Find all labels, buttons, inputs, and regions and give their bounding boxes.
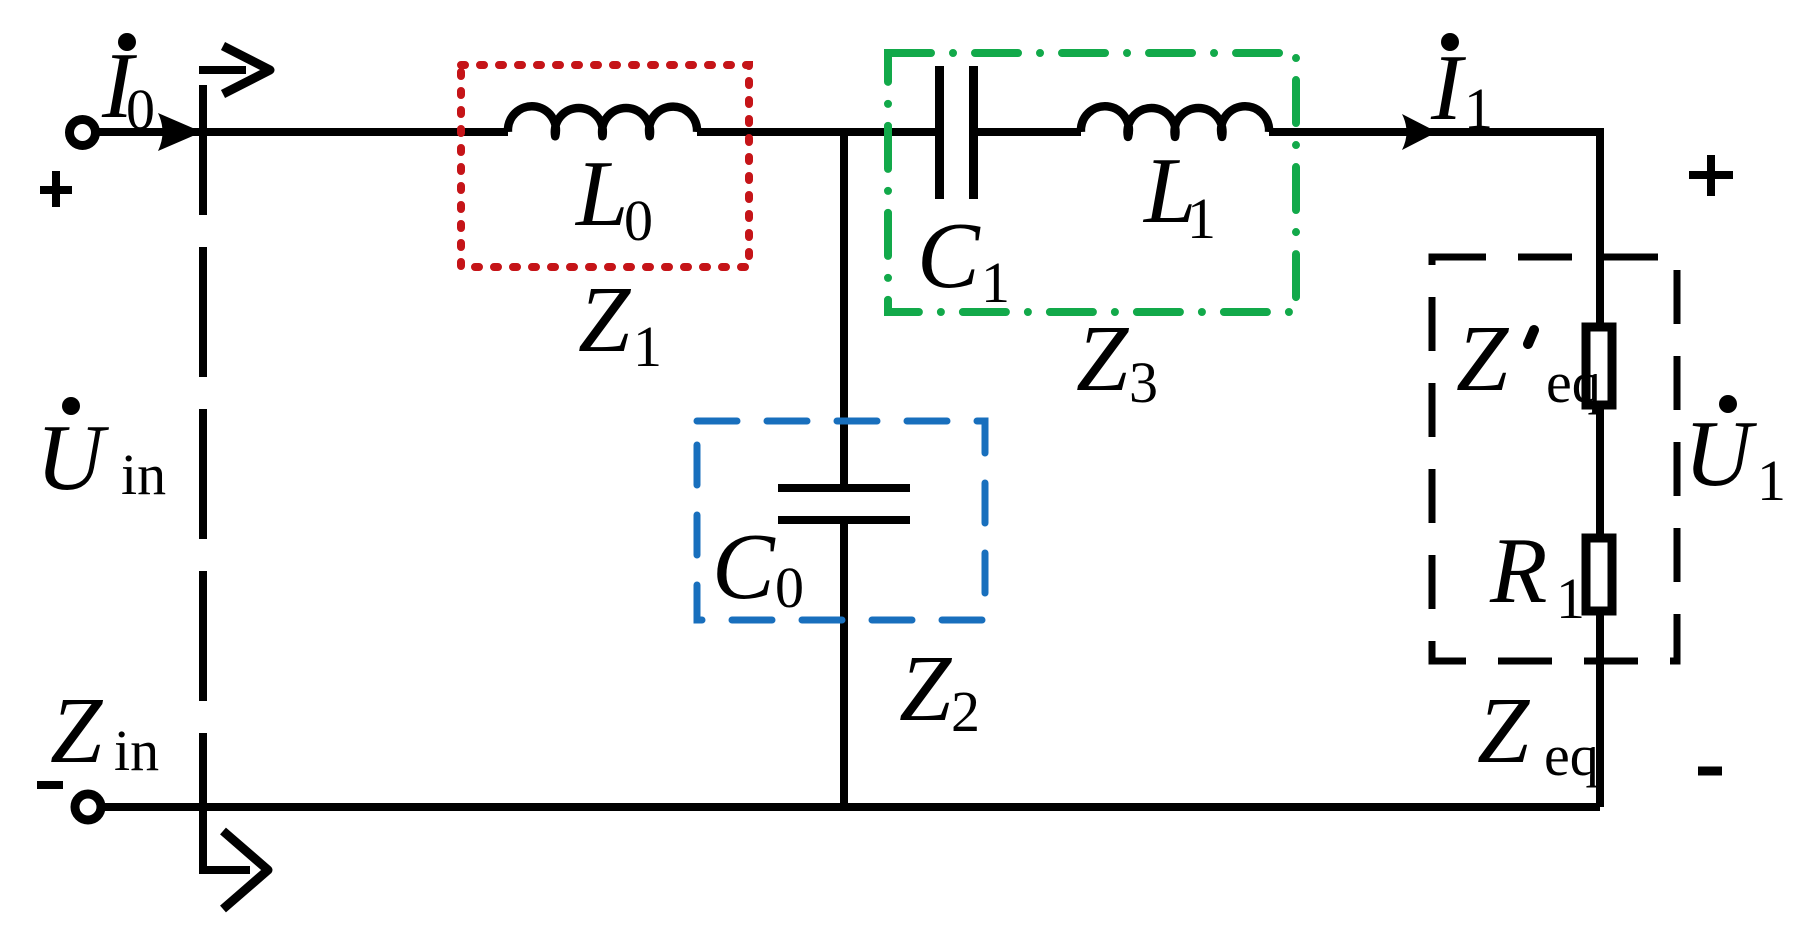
label R1 [1489,519,1585,631]
bottom direction arrowhead (open) [223,831,268,909]
current arrowhead I1 [1402,114,1437,150]
terminal top-left [70,120,96,146]
svg-text:U: U [1684,402,1757,506]
svg-text:Z: Z [1477,679,1531,783]
plus sign left [40,171,72,207]
svg-text:1: 1 [633,314,662,379]
top direction arrow shaft [199,66,246,74]
current arrowhead I0 [158,113,202,151]
label Z2 [899,637,980,744]
resistor Z'eq [1586,327,1612,405]
svg-text:1: 1 [1556,566,1585,631]
svg-text:Z: Z [899,637,953,741]
svg-text:eq: eq [1546,350,1601,415]
svg-text:0: 0 [624,188,653,253]
black dashed box Zeq [1432,257,1677,661]
svg-text:U: U [36,406,109,510]
svg-text:R: R [1489,519,1547,623]
capacitor C0 [778,488,910,520]
top direction arrowhead (open) [223,46,270,94]
label I0 with dot [101,33,155,142]
svg-text:C: C [712,515,776,619]
label I1 with dot [1430,33,1493,141]
blue dashed box Z2 [697,421,985,620]
green dash-dot box Z3 [888,53,1296,312]
label Z3 [1076,307,1158,415]
terminal bottom-left [75,794,101,820]
label C1 [917,204,1010,315]
plus sign right [1689,155,1733,196]
label Z'eq [1456,307,1601,415]
svg-text:in: in [114,718,159,783]
inductor L1 [1081,106,1269,137]
capacitor C1 [940,66,974,199]
wire: L0 to node [697,128,936,136]
svg-text:Z: Z [578,268,632,372]
svg-text:Z: Z [50,679,104,783]
port dashed line solid tail + bottom arrow shaft [203,733,250,870]
label Zeq [1477,679,1599,788]
inductor L0 [508,106,697,136]
svg-text:1: 1 [981,250,1010,315]
label L0 [574,142,653,253]
bottom wire [105,803,1600,811]
resistor R1 [1586,538,1612,611]
svg-text:C: C [917,204,981,308]
svg-text:0: 0 [126,77,155,142]
svg-text:1: 1 [1464,76,1493,141]
label L1 [1142,139,1216,251]
label Uin with dot [36,397,166,510]
label Zin [50,679,159,783]
wire: C1 to L1 [978,128,1081,136]
minus sign left [37,781,63,789]
svg-text:1: 1 [1187,186,1216,251]
red dotted box Z1 [461,65,749,267]
svg-text:Z: Z [1456,307,1510,411]
svg-text:in: in [121,442,166,507]
wire: L1 to right corner and down [1269,132,1600,807]
svg-text:0: 0 [775,555,804,620]
svg-text:1: 1 [1757,448,1786,513]
minus sign right [1698,767,1722,776]
svg-text:3: 3 [1129,350,1158,415]
C0 branch wire lower [840,520,848,807]
label C0 [712,515,804,620]
label Z1 [578,268,662,379]
node: C0 branch wire upper [840,132,848,488]
wire top: terminal to L0 [99,128,508,136]
svg-text:2: 2 [951,679,980,744]
port dashed line (left, vertical) [199,85,207,733]
svg-text:I: I [1430,36,1466,140]
svg-text:Z: Z [1076,307,1130,411]
svg-text:L: L [574,142,628,246]
svg-text:eq: eq [1544,723,1599,788]
label U1 with dot [1684,395,1786,513]
